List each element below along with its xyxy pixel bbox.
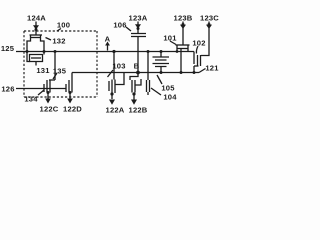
svg-text:121: 121 [205,64,219,73]
svg-text:123A: 123A [129,14,148,23]
svg-text:101: 101 [163,34,177,43]
svg-text:124A: 124A [27,14,46,23]
svg-text:134: 134 [24,95,38,104]
svg-text:103: 103 [112,62,125,71]
svg-text:B: B [134,62,140,71]
svg-text:102: 102 [192,39,205,48]
svg-text:122C: 122C [40,105,59,114]
svg-text:132: 132 [52,37,65,46]
svg-text:123B: 123B [174,14,193,23]
svg-text:105: 105 [161,84,175,93]
svg-text:122A: 122A [106,106,125,115]
svg-text:131: 131 [36,66,50,75]
svg-text:104: 104 [163,93,177,102]
svg-text:125: 125 [1,44,15,53]
svg-text:126: 126 [1,85,14,94]
svg-text:123C: 123C [200,14,219,23]
svg-text:122D: 122D [63,105,82,114]
svg-text:122B: 122B [129,106,148,115]
svg-text:135: 135 [53,67,67,76]
svg-text:106: 106 [113,21,126,30]
svg-text:A: A [105,35,111,44]
svg-text:100: 100 [57,21,70,30]
